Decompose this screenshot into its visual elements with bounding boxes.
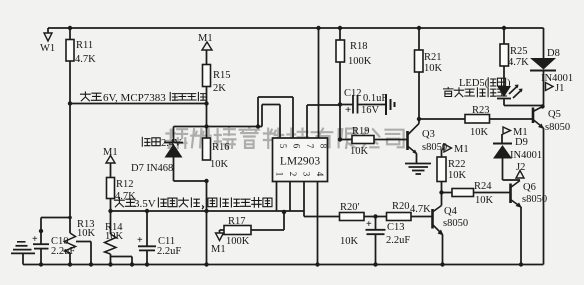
node R12 junction xyxy=(108,209,112,213)
diode D9 cathode bar xyxy=(493,143,512,145)
node rail bus junction xyxy=(204,262,208,266)
node left rail junction xyxy=(68,101,72,105)
svg-text:Q5: Q5 xyxy=(548,109,561,120)
node mid wire junction xyxy=(204,124,208,128)
node Q4 bus junction xyxy=(440,262,444,266)
node Q6 bus junction xyxy=(519,262,523,266)
wire R25-LED xyxy=(503,66,505,86)
ground Q3 xyxy=(405,163,431,165)
svg-text:10K: 10K xyxy=(105,231,124,242)
wire riser pin6 xyxy=(257,97,259,127)
wire R24-Q6 base xyxy=(474,192,510,194)
node C10 bus junction xyxy=(39,262,43,266)
wire mid horizontal xyxy=(174,126,263,128)
wire LED-Q5 node xyxy=(503,99,505,106)
node C11 top junction xyxy=(145,209,149,213)
svg-text:+: + xyxy=(345,104,351,116)
wire C10 top corner xyxy=(41,217,70,219)
svg-text:16V: 16V xyxy=(361,105,380,116)
battery B1 xyxy=(17,241,26,243)
svg-text:R22: R22 xyxy=(448,159,466,170)
wire Q3-R23 xyxy=(419,118,465,120)
svg-text:IN4001: IN4001 xyxy=(510,150,542,161)
terminal M1 R22 xyxy=(444,144,452,152)
svg-text:2: 2 xyxy=(288,172,298,177)
transistor Q4 bar xyxy=(431,209,434,229)
annotation zener 2.4V xyxy=(142,137,182,149)
wire pin1 drop xyxy=(276,182,278,212)
terminal M1 R17 xyxy=(216,233,224,241)
wire R19-Q3 base xyxy=(374,139,407,141)
transistor Q6 collector xyxy=(511,181,521,188)
op-amp U1 LM2903 body xyxy=(273,138,328,182)
wire right rail xyxy=(543,128,545,265)
svg-text:10K: 10K xyxy=(210,159,229,170)
resistor R20 xyxy=(387,213,412,221)
svg-text:4.7K: 4.7K xyxy=(508,57,529,68)
svg-text:10K: 10K xyxy=(424,63,443,74)
wire R13 wiper xyxy=(76,241,91,243)
wire pin7 riser xyxy=(306,105,308,138)
svg-text:W1: W1 xyxy=(40,43,55,54)
wire C13 bottom xyxy=(375,234,377,264)
wire R22 bottom xyxy=(441,182,443,193)
wire pin3 to R20' xyxy=(304,216,340,218)
resistor R22 xyxy=(437,157,446,182)
node C13 junction xyxy=(373,214,377,218)
wire R17 riser xyxy=(283,211,285,230)
resistor R25 xyxy=(500,44,509,66)
node C12 junction xyxy=(338,102,342,106)
wire R20-Q4 base xyxy=(411,216,433,218)
wire R19 left xyxy=(340,139,352,141)
transistor Q4 emitter xyxy=(433,225,443,235)
wire R18 bottom xyxy=(339,62,341,140)
node D7-R16 junction xyxy=(204,179,208,183)
svg-text:4.7K: 4.7K xyxy=(75,54,96,65)
wire Q4 emitter drop xyxy=(442,235,444,265)
transistor Q5 collector xyxy=(533,107,543,112)
wire M1-R22 xyxy=(441,150,443,157)
svg-text:R20: R20 xyxy=(392,201,410,212)
node Q3 collector junction xyxy=(417,117,421,121)
svg-text:LED5(: LED5( xyxy=(459,78,489,89)
wire R17 left stub xyxy=(220,229,225,231)
terminal J1 xyxy=(546,83,554,91)
label LED5 green xyxy=(459,78,511,89)
wire top VCC bus xyxy=(48,27,544,29)
svg-text:R16: R16 xyxy=(212,142,230,153)
svg-text:Q4: Q4 xyxy=(444,206,458,217)
annotation text >6V MCP7383 stop xyxy=(81,92,167,104)
svg-text:4: 4 xyxy=(315,172,325,177)
svg-text:10K: 10K xyxy=(350,146,369,157)
node R13 wiper bus junction xyxy=(89,262,93,266)
wire y211 horizontal xyxy=(111,210,305,212)
svg-text:s8050: s8050 xyxy=(545,122,570,133)
svg-text:6: 6 xyxy=(292,144,302,149)
capacitor C11 xyxy=(138,245,156,247)
wire rail to bottom bus xyxy=(206,181,208,265)
resistor R19 xyxy=(352,136,374,144)
svg-text:3.5V: 3.5V xyxy=(134,198,156,210)
node left rail c10 junction xyxy=(68,216,72,220)
svg-text:R20': R20' xyxy=(340,202,360,213)
transistor Q4 collector xyxy=(433,206,442,213)
svg-text:D8: D8 xyxy=(547,48,560,59)
node R22-R24 junction xyxy=(439,190,443,194)
svg-text:5: 5 xyxy=(278,144,288,149)
svg-text:R11: R11 xyxy=(76,40,93,51)
potentiometer R13 xyxy=(65,233,76,253)
wire D8 bottom xyxy=(543,71,545,107)
wire R14 wiper xyxy=(111,256,133,258)
svg-text:100K: 100K xyxy=(348,56,372,67)
node C13 bus junction xyxy=(373,262,377,266)
led LED5 xyxy=(497,86,511,97)
node rail y211 junction xyxy=(204,209,208,213)
svg-text:D7 IN468: D7 IN468 xyxy=(131,163,173,174)
terminal J2 xyxy=(516,171,524,179)
wire R14 bottom xyxy=(110,254,112,265)
wire R23-Q5 base xyxy=(490,118,533,120)
svg-text:0.1uF: 0.1uF xyxy=(363,93,387,104)
wire Q3 emitter-gnd xyxy=(416,154,418,164)
svg-text:R15: R15 xyxy=(213,70,231,81)
annotation text <3.5V li overdischarge xyxy=(115,198,273,210)
svg-text:8: 8 xyxy=(319,144,329,149)
transistor Q3 collector xyxy=(408,124,420,136)
svg-text:3: 3 xyxy=(302,172,312,177)
node C11 bus junction xyxy=(145,262,149,266)
node R18 top junction xyxy=(338,26,342,30)
diode D7 xyxy=(165,144,183,158)
svg-text:2K: 2K xyxy=(213,83,226,94)
wire pin3 drop xyxy=(303,182,305,217)
wire R18 top xyxy=(339,28,341,40)
node pin8 top junction xyxy=(316,26,320,30)
terminal M1 D9 xyxy=(503,127,511,134)
resistor R16 xyxy=(203,138,211,160)
terminal W1 xyxy=(44,33,52,41)
wire R11 top xyxy=(69,28,71,40)
resistor R18 xyxy=(336,40,345,62)
wire left rail upper xyxy=(69,61,71,104)
wire Q6 emitter drop xyxy=(520,207,522,265)
wire R15-R16 column xyxy=(206,87,208,139)
transistor Q3 bar xyxy=(406,131,409,150)
node mid junction xyxy=(256,124,260,128)
wire Q4 collector riser xyxy=(441,193,443,206)
svg-text:10K: 10K xyxy=(77,228,96,239)
wire R25 top xyxy=(503,28,505,44)
wire R21 bottom xyxy=(418,72,420,119)
wire C11 bottom xyxy=(146,250,148,264)
svg-text:J1: J1 xyxy=(555,83,564,94)
svg-text:D9: D9 xyxy=(515,137,528,148)
wire left rail mid xyxy=(69,104,71,234)
svg-text:LM2903: LM2903 xyxy=(280,156,321,168)
annotation text stop work xyxy=(170,92,205,100)
node R14 wiper bus junction xyxy=(130,262,134,266)
node R15 bottom junction xyxy=(204,101,208,105)
node Q5 collector junction xyxy=(540,104,544,108)
resistor R12 xyxy=(107,178,115,199)
wire M1-R12 xyxy=(110,163,112,178)
wire battery to bus xyxy=(22,253,24,264)
diode D7 cathode bar xyxy=(164,142,183,144)
transistor Q5 bar xyxy=(532,108,535,124)
svg-text:+: + xyxy=(366,219,372,230)
transistor Q6 emitter xyxy=(511,200,522,208)
svg-text:J2: J2 xyxy=(516,162,525,173)
svg-text:10K: 10K xyxy=(340,236,359,247)
svg-text:R17: R17 xyxy=(228,216,246,227)
wire C13 riser xyxy=(375,217,377,230)
svg-text:7: 7 xyxy=(305,144,315,149)
resistor R15 xyxy=(203,65,211,87)
potentiometer R14 xyxy=(105,234,117,254)
transistor Q6 bar xyxy=(509,184,512,204)
transistor Q5 emitter xyxy=(533,120,544,129)
svg-text:6V, MCP7383: 6V, MCP7383 xyxy=(103,92,166,104)
wire D7-R16 bottom xyxy=(174,180,207,182)
wire riser pin5 xyxy=(261,105,263,127)
wire R21 top xyxy=(418,28,420,50)
node left rail bus junction xyxy=(68,262,72,266)
resistor R11 xyxy=(66,40,74,62)
svg-text:100K: 100K xyxy=(226,236,250,247)
svg-text:4.7K: 4.7K xyxy=(410,204,431,215)
svg-text:Q3: Q3 xyxy=(422,129,435,140)
resistor R24 xyxy=(452,189,474,197)
resistor R21 xyxy=(415,50,424,72)
wire R20p-R20 xyxy=(364,216,387,218)
resistor R17 xyxy=(224,226,251,235)
svg-text:R25: R25 xyxy=(510,46,528,57)
wire bottom bus xyxy=(23,264,544,266)
wire pin8 drop xyxy=(318,28,320,138)
svg-text:10K: 10K xyxy=(448,170,467,181)
node C10 riser junction xyxy=(39,229,43,233)
svg-text:M1: M1 xyxy=(198,33,213,44)
watermark text xyxy=(166,128,403,148)
node junction top-left xyxy=(68,26,72,30)
node R21 top junction xyxy=(417,26,421,30)
wire C11 riser xyxy=(146,211,148,246)
svg-text:1: 1 xyxy=(275,172,285,177)
wire D8 top xyxy=(543,28,545,58)
svg-text:2.2uF: 2.2uF xyxy=(386,235,410,246)
capacitor C13 xyxy=(366,229,386,231)
node R25 top junction xyxy=(502,26,506,30)
terminal W1 stub xyxy=(47,28,49,33)
diode D9 xyxy=(493,145,512,159)
wire M1-R15 xyxy=(206,50,208,65)
wire M1-D9 xyxy=(501,134,503,144)
wire R24 left xyxy=(442,192,453,194)
svg-text:R24: R24 xyxy=(474,181,492,192)
svg-text:R21: R21 xyxy=(424,52,442,63)
svg-text:R12: R12 xyxy=(116,179,134,190)
wire C12 right xyxy=(358,104,387,106)
svg-text:Q6: Q6 xyxy=(523,182,536,193)
svg-text:10K: 10K xyxy=(470,127,489,138)
svg-text:M1: M1 xyxy=(211,244,226,255)
svg-text:s8050: s8050 xyxy=(443,218,468,229)
svg-text:+: + xyxy=(137,235,143,246)
wire horizontal 6V note xyxy=(70,103,206,105)
diode D8 xyxy=(530,58,556,70)
wire D7 top xyxy=(173,127,175,144)
terminal M1 R12 xyxy=(106,156,115,164)
svg-text:2.2uF: 2.2uF xyxy=(157,246,181,257)
wire C10 bottom xyxy=(40,249,42,265)
node R17 riser junction xyxy=(282,210,286,214)
svg-text:C13: C13 xyxy=(387,222,405,233)
resistor R20p xyxy=(340,213,365,221)
wire D7 bottom xyxy=(173,158,175,182)
svg-text:R18: R18 xyxy=(350,41,368,52)
wire R12 bottom xyxy=(110,199,112,212)
svg-text:M1: M1 xyxy=(454,144,469,155)
wire pin4 drop xyxy=(317,182,319,265)
terminal M1 top xyxy=(202,42,212,50)
wire R14 riser xyxy=(110,211,112,234)
resistor R23 xyxy=(465,115,490,124)
capacitor C10 xyxy=(33,243,49,245)
svg-text:10K: 10K xyxy=(475,195,494,206)
ground sideways C12 xyxy=(385,94,387,115)
annotation safe work indicator xyxy=(444,87,507,96)
svg-text:4.7K: 4.7K xyxy=(115,191,136,202)
svg-text:s8050: s8050 xyxy=(522,194,547,205)
wire C12 left xyxy=(340,104,353,106)
wire D9 bottom xyxy=(502,159,504,181)
wire left rail lower xyxy=(69,253,71,265)
transistor Q3 emitter xyxy=(408,146,417,154)
wire pin2 drop xyxy=(289,182,291,212)
node R19 junction xyxy=(338,137,342,141)
node pin4 bus junction xyxy=(315,262,319,266)
node R14 bus junction xyxy=(108,262,112,266)
capacitor C12 xyxy=(352,95,354,114)
